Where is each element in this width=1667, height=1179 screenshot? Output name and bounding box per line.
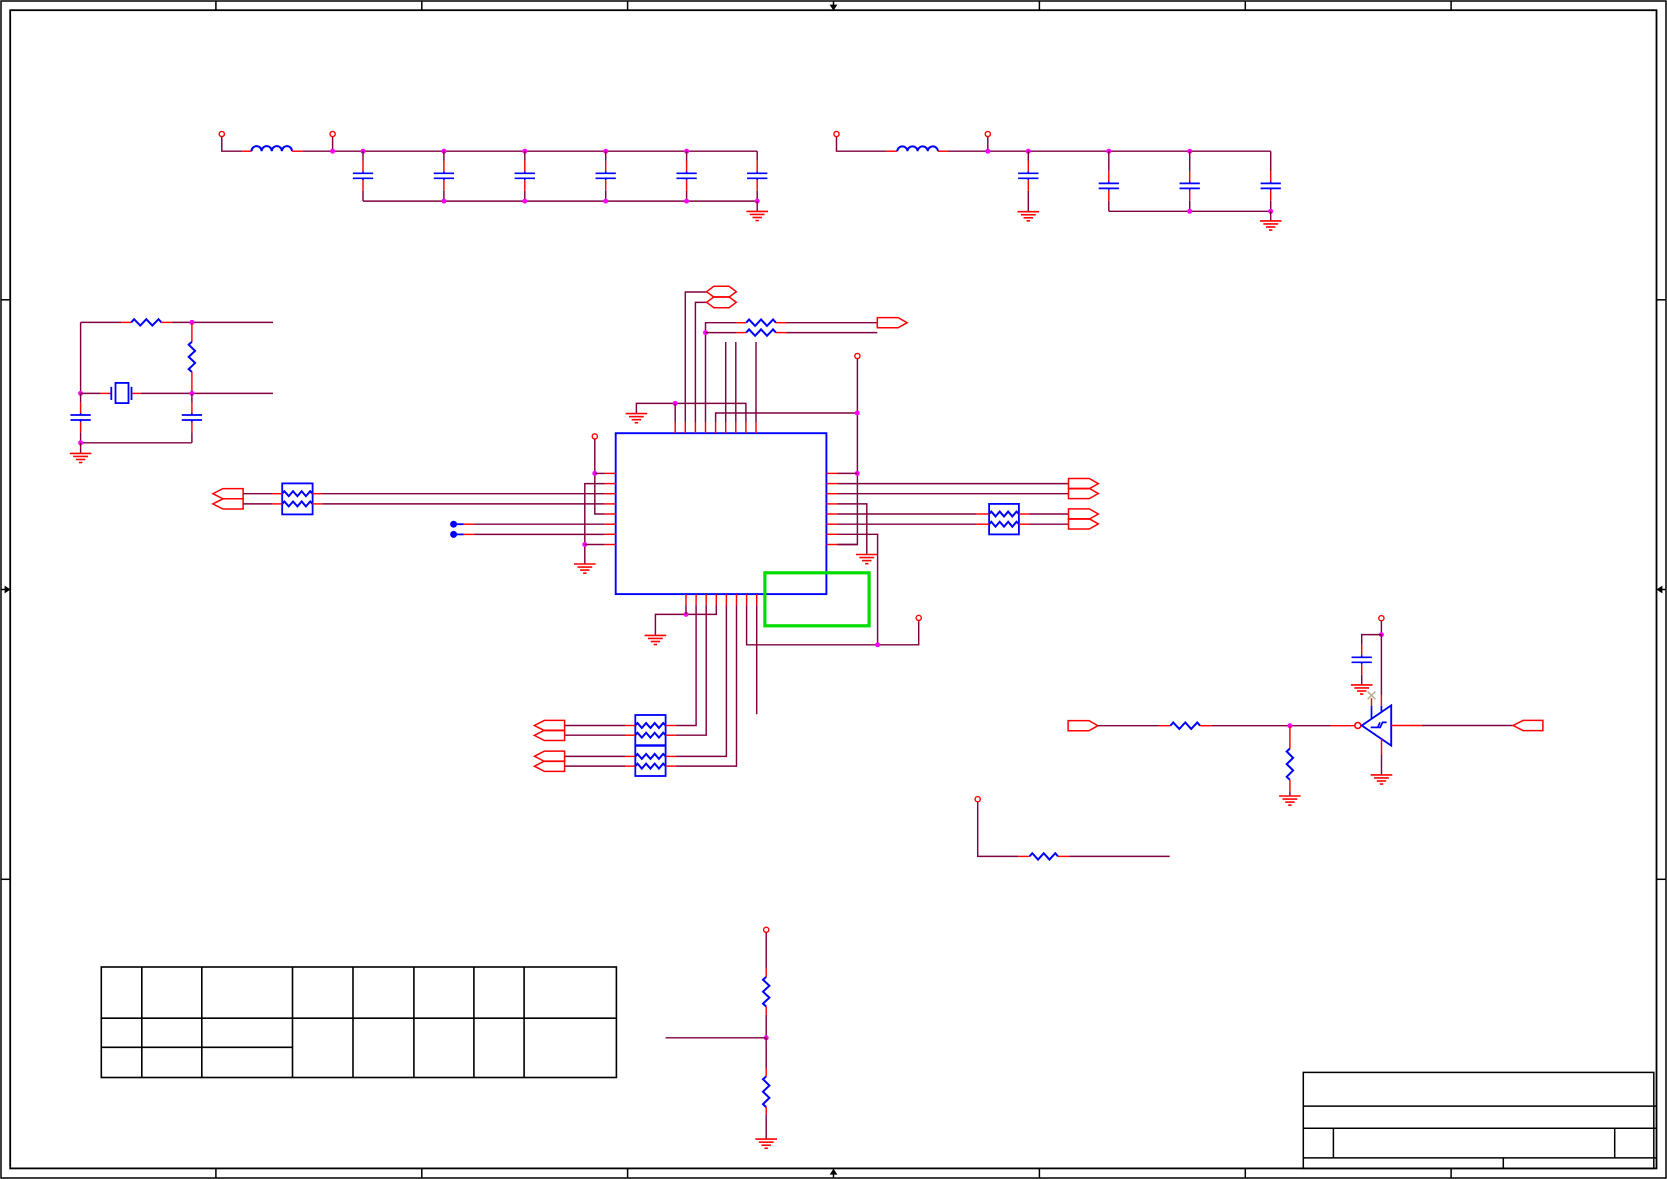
wire xyxy=(585,484,605,564)
wire xyxy=(243,503,273,505)
junction xyxy=(592,471,597,476)
pin P8 xyxy=(1379,616,1384,621)
wire xyxy=(676,605,737,766)
wire xyxy=(81,321,121,323)
wire xyxy=(837,534,877,645)
wire xyxy=(666,1037,767,1039)
resistor pack RP4 xyxy=(625,746,676,776)
resistor R7 xyxy=(1018,853,1069,859)
capacitor C4 xyxy=(596,151,616,201)
port IP6 xyxy=(534,761,564,771)
junction xyxy=(855,471,860,476)
junction xyxy=(78,440,83,445)
wire xyxy=(655,605,716,635)
wire xyxy=(755,342,757,422)
wire xyxy=(474,533,605,535)
junction xyxy=(582,542,587,547)
wire xyxy=(322,503,605,505)
capacitor C7 xyxy=(1018,151,1038,212)
wire xyxy=(674,403,676,422)
ground xyxy=(626,414,648,423)
ground xyxy=(755,1139,777,1148)
junction xyxy=(1268,209,1273,214)
resistor pack RP3 xyxy=(625,715,676,745)
ground xyxy=(1351,685,1373,694)
junction xyxy=(78,391,83,396)
wire xyxy=(786,322,877,324)
resistor R9 xyxy=(763,1068,769,1114)
capacitor C10 xyxy=(1261,151,1281,211)
port OP3 xyxy=(1069,509,1099,519)
wire xyxy=(1331,725,1355,727)
capacitor C2 xyxy=(434,151,454,201)
marker rectangle xyxy=(765,573,869,626)
wire xyxy=(747,605,919,645)
pin P6 xyxy=(592,434,597,439)
wire xyxy=(474,523,605,525)
junction xyxy=(1026,149,1031,154)
resistor R5 xyxy=(1159,723,1212,729)
junction xyxy=(361,149,366,154)
port IP4 xyxy=(534,730,564,740)
junction xyxy=(330,149,335,154)
wire xyxy=(565,725,625,727)
wire xyxy=(322,493,605,495)
wire xyxy=(363,200,757,202)
inductor L1 xyxy=(242,146,303,151)
wire xyxy=(837,483,1068,485)
junction xyxy=(1187,149,1192,154)
junction xyxy=(764,1035,769,1040)
wire xyxy=(706,323,737,423)
port IP5 xyxy=(534,751,564,761)
revision table xyxy=(101,967,616,1078)
title block xyxy=(1303,1072,1656,1168)
capacitor C6 xyxy=(747,151,767,201)
port DP2 xyxy=(707,297,737,308)
wire xyxy=(191,390,193,393)
port OP2 xyxy=(1069,488,1099,498)
junction xyxy=(522,199,527,204)
wire xyxy=(1380,621,1382,635)
ground xyxy=(1260,211,1282,230)
wire xyxy=(1212,725,1331,727)
junction xyxy=(875,642,880,647)
junction xyxy=(1287,723,1292,728)
wire xyxy=(1109,210,1271,212)
ground xyxy=(645,635,667,644)
wire xyxy=(1422,725,1513,727)
port OP1 xyxy=(1069,479,1099,489)
ground xyxy=(1279,796,1301,805)
junction xyxy=(189,320,194,325)
wire xyxy=(837,544,857,546)
capacitor C12 xyxy=(182,393,202,442)
pin P9 xyxy=(975,797,980,802)
wire xyxy=(756,605,758,714)
wire xyxy=(837,504,866,555)
wire xyxy=(765,933,767,969)
ground xyxy=(1018,212,1040,221)
IC U1 xyxy=(616,433,827,594)
wire xyxy=(222,137,242,151)
junction xyxy=(1187,209,1192,214)
capacitor C13 xyxy=(1352,645,1372,685)
port DP1 xyxy=(707,286,737,297)
resistor R2 xyxy=(189,323,195,390)
wire xyxy=(765,1038,767,1068)
wire xyxy=(837,359,857,545)
wire xyxy=(837,493,1068,495)
junction xyxy=(522,149,527,154)
wire xyxy=(81,442,192,444)
wire xyxy=(1030,513,1069,515)
inductor L2 xyxy=(886,146,948,151)
junction xyxy=(684,199,689,204)
wire xyxy=(706,332,737,334)
junction xyxy=(1106,149,1111,154)
wire xyxy=(786,332,877,334)
junction xyxy=(684,149,689,154)
capacitor C5 xyxy=(676,151,696,201)
resistor R3 xyxy=(737,320,787,326)
capacitor C3 xyxy=(515,151,535,201)
wire xyxy=(80,322,82,393)
wire xyxy=(1362,635,1382,645)
wire xyxy=(735,342,737,422)
wire xyxy=(676,605,727,756)
junction xyxy=(855,411,860,416)
pin P10 xyxy=(764,927,769,932)
wire xyxy=(565,734,625,736)
resistor pack RP2 xyxy=(977,504,1030,535)
wire xyxy=(1069,855,1170,857)
pin P5 xyxy=(855,353,860,358)
port IP1 xyxy=(213,489,243,499)
port IP2 xyxy=(213,499,243,509)
wire xyxy=(243,493,273,495)
resistor R1 xyxy=(121,319,172,325)
resistor R4 xyxy=(737,329,787,335)
pin P7 xyxy=(916,615,921,620)
wire xyxy=(837,137,887,151)
wire xyxy=(948,150,1271,152)
wire xyxy=(837,472,857,474)
wire xyxy=(716,413,858,422)
junction xyxy=(603,199,608,204)
wire xyxy=(1098,725,1159,727)
port AP1 xyxy=(877,318,907,328)
junction xyxy=(755,199,760,204)
port OP5 xyxy=(1513,720,1543,730)
junction xyxy=(189,391,194,396)
capacitor C1 xyxy=(353,151,373,201)
junction xyxy=(441,149,446,154)
wire xyxy=(695,302,706,422)
junction xyxy=(441,199,446,204)
wire xyxy=(765,1114,767,1139)
wire xyxy=(565,765,625,767)
wire xyxy=(1380,635,1382,695)
capacitor C11 xyxy=(70,393,90,442)
IC U1 pins xyxy=(605,422,838,605)
ground xyxy=(856,555,878,564)
port IP3 xyxy=(534,720,564,730)
ground xyxy=(746,201,768,220)
resistor pack RP1 xyxy=(273,483,323,514)
ground xyxy=(574,564,596,573)
junction xyxy=(985,149,990,154)
junction xyxy=(684,612,689,617)
junction xyxy=(673,401,678,406)
wire xyxy=(81,392,101,394)
gate U2 xyxy=(1355,695,1422,755)
wire xyxy=(685,292,706,422)
wire xyxy=(595,439,605,514)
junction xyxy=(703,330,708,335)
wire xyxy=(303,150,757,152)
ground xyxy=(70,443,92,463)
wire xyxy=(725,342,727,422)
wire xyxy=(1381,755,1383,775)
pin NC1 xyxy=(450,521,474,528)
wire xyxy=(141,392,273,394)
wire xyxy=(636,403,746,422)
wire xyxy=(685,605,687,614)
no-connect X xyxy=(1368,692,1376,700)
wire xyxy=(1030,523,1069,525)
wire xyxy=(837,523,976,525)
pin P4 xyxy=(985,131,990,151)
ground xyxy=(1371,775,1393,784)
pin P2 xyxy=(330,131,335,151)
wire xyxy=(595,472,605,474)
resistor R8 xyxy=(763,969,769,1015)
pin P1 xyxy=(219,131,224,136)
port IP7 xyxy=(1068,721,1098,731)
wire xyxy=(676,605,706,735)
capacitor C8 xyxy=(1099,151,1119,211)
junction xyxy=(1379,632,1384,637)
capacitor C9 xyxy=(1180,151,1200,211)
crystal Y1 xyxy=(100,383,140,403)
pin P3 xyxy=(834,131,839,136)
port OP4 xyxy=(1069,519,1099,529)
wire xyxy=(765,1015,767,1038)
wire xyxy=(676,605,696,725)
pin NC2 xyxy=(450,531,474,538)
junction xyxy=(603,149,608,154)
wire xyxy=(172,321,273,323)
wire xyxy=(585,544,605,546)
wire xyxy=(1289,791,1291,796)
wire xyxy=(565,755,625,757)
wire xyxy=(978,802,1019,856)
wire xyxy=(837,513,976,515)
resistor R6 xyxy=(1287,726,1293,792)
